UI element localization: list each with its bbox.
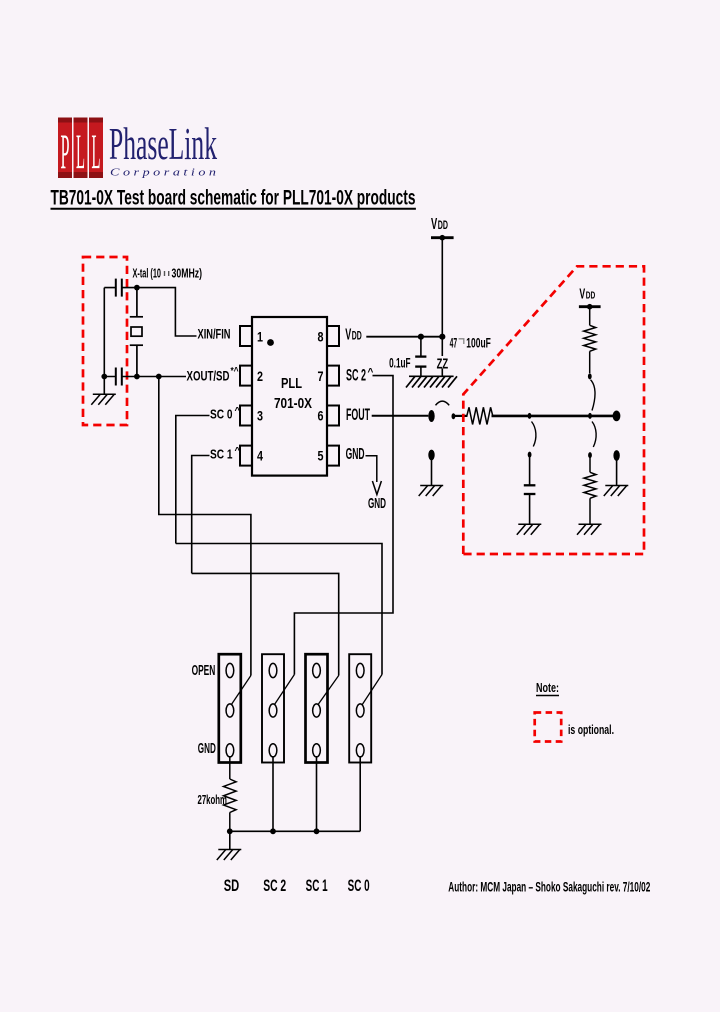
svg-text:GND: GND [368, 495, 386, 512]
node main line mid [528, 413, 532, 419]
svg-text:DD: DD [352, 331, 362, 343]
node XIN junction [134, 285, 140, 291]
wire SC1 jumper bottom [316, 756, 318, 831]
svg-text:100uF: 100uF [466, 334, 491, 350]
pin 4 box [240, 446, 252, 466]
node VDD junction [439, 334, 445, 340]
label SC 2 [346, 367, 374, 385]
optional dashed box (crystal) [83, 257, 127, 425]
label SC 0 [210, 406, 241, 422]
node bus SC2 [270, 828, 276, 834]
node shunt resistor top [588, 452, 592, 458]
ground crystal rail [91, 394, 116, 405]
jumper header SC0 [349, 654, 371, 762]
resistor series (in line) [467, 407, 493, 424]
svg-text:^: ^ [235, 406, 241, 417]
power VDD symbol top [431, 216, 454, 241]
svg-text:DD: DD [438, 220, 448, 232]
wire pin8 to VDD [366, 336, 442, 338]
wire VDD vertical [441, 238, 443, 337]
svg-text:V: V [579, 286, 585, 302]
pin 1 box [240, 326, 252, 346]
hop arc pull-up to line [591, 380, 596, 411]
power VDD symbol right [579, 286, 601, 309]
jumper header SD [219, 654, 241, 762]
capacitor electrolytic ZZ [437, 337, 449, 377]
wire switch diagonal SC0 [362, 675, 382, 705]
crystal Y1 [130, 289, 143, 377]
pin 2 box [240, 366, 252, 386]
svg-text:SC 0: SC 0 [210, 407, 233, 422]
svg-text:C o r p o r a t i o n: C o r p o r a t i o n [110, 167, 217, 179]
node bus SC1 [314, 828, 320, 834]
logo block L2 [89, 118, 103, 180]
wire pin5 GND arrow [366, 456, 382, 495]
svg-text:SC 2: SC 2 [346, 367, 366, 385]
svg-text:Note:: Note: [536, 681, 559, 695]
svg-text:is optional.: is optional. [568, 723, 614, 737]
svg-text:0.1uF: 0.1uF [389, 354, 411, 370]
wire SC0 left [176, 416, 210, 544]
svg-text:L: L [76, 123, 85, 179]
node after hop [452, 413, 456, 419]
svg-text:FOUT: FOUT [346, 406, 370, 424]
wire cap top leads [104, 287, 137, 289]
svg-text:30MHz): 30MHz) [172, 265, 203, 280]
note heading [536, 681, 559, 696]
pin 5 box [327, 446, 339, 466]
label XOUT/SD [187, 366, 239, 384]
svg-text:X-tal (10: X-tal (10 [133, 265, 162, 280]
svg-text:GND: GND [198, 741, 216, 757]
svg-text:47: 47 [450, 334, 458, 350]
title TB701-0X [51, 187, 416, 210]
wire switch diagonal SD [231, 676, 251, 705]
svg-text:XIN/FIN: XIN/FIN [198, 326, 231, 342]
jumper pins SD [226, 663, 234, 757]
ground shunt resistor [577, 524, 602, 535]
node main line right [588, 413, 592, 419]
jumper hop arc [436, 401, 450, 405]
svg-text:6: 6 [318, 408, 324, 424]
wire SC2 net run [294, 376, 393, 675]
svg-text:PhaseLink: PhaseLink [109, 118, 217, 169]
svg-text:PLL: PLL [281, 376, 302, 392]
ground jumper bus [217, 850, 242, 861]
label VDD pin8 [345, 327, 362, 344]
hop arc to shunt cap [532, 422, 536, 447]
svg-text:SC 1: SC 1 [306, 876, 328, 895]
svg-text:V: V [431, 216, 437, 233]
svg-text:P: P [61, 123, 70, 179]
svg-text:SC 2: SC 2 [263, 876, 286, 895]
svg-text:TB701-0X Test board schematic: TB701-0X Test board schematic for PLL701… [51, 187, 416, 210]
ground shunt cap [517, 524, 542, 535]
svg-text:GND: GND [346, 446, 365, 463]
svg-text:5: 5 [318, 448, 324, 464]
svg-text:4: 4 [257, 448, 263, 464]
ground power caps (wide hatched) [406, 376, 457, 387]
wire switch diagonal SC1 [318, 676, 339, 705]
resistor shunt [584, 458, 596, 525]
svg-text:3: 3 [257, 408, 263, 424]
wire bus to ground [229, 831, 231, 849]
pin 8 box [327, 326, 339, 346]
node SD tap [156, 374, 162, 380]
node rail junction [101, 374, 107, 380]
label 47~100uF [450, 334, 491, 350]
node bus left [227, 828, 233, 834]
terminal output post [613, 411, 621, 422]
wire SC0 net run [176, 544, 382, 675]
jumper header SC2 [262, 654, 284, 762]
resistor 27kohm [224, 756, 237, 831]
capacitor C-load bottom [116, 368, 122, 386]
note dashed sample box [535, 713, 562, 742]
capacitor C-load top [116, 279, 122, 297]
svg-text:DD: DD [586, 289, 596, 301]
wire SC1 net run [192, 573, 339, 675]
wire XIN net [137, 288, 197, 336]
node cap 0.1uF tap [418, 334, 424, 340]
logo block L1 [74, 118, 88, 180]
wire XOUT row [137, 376, 186, 378]
IC U1 body PLL701-0X [252, 317, 327, 476]
wire switch diagonal SC2 [275, 675, 295, 705]
pin 6 box [327, 406, 339, 426]
svg-text:8: 8 [318, 329, 324, 345]
ground right post [604, 486, 629, 497]
svg-text:L: L [92, 123, 101, 179]
svg-text:Author: MCM Japan – Shoko Saka: Author: MCM Japan – Shoko Sakaguchi rev.… [448, 879, 650, 894]
svg-text:XOUT/SD: XOUT/SD [187, 368, 230, 384]
svg-text:*^: *^ [231, 366, 239, 377]
node pull-up bottom [588, 373, 592, 379]
resistor pull-up [584, 307, 596, 374]
jumper header SC1 [306, 654, 328, 762]
terminal GND post below FOUT [428, 450, 434, 486]
logo block P [58, 118, 72, 180]
pin 3 box [240, 406, 252, 426]
wire SC0 jumper bottom [359, 756, 361, 831]
pin 1 marker dot [267, 339, 274, 346]
wire cap bottom leads [104, 376, 137, 378]
ground FOUT post [419, 486, 444, 497]
jumper pins SC0 [356, 663, 364, 757]
svg-text:OPEN: OPEN [192, 663, 216, 679]
wire SD net run [159, 377, 251, 676]
optional dashed region (output network) [463, 266, 644, 554]
terminal FOUT post [428, 410, 434, 422]
svg-text:^: ^ [235, 446, 241, 457]
capacitor 0.1uF [415, 337, 426, 377]
svg-text:701-0X: 701-0X [274, 396, 312, 412]
wire jumper ground bus [230, 830, 360, 832]
capacitor shunt [524, 457, 536, 524]
wire crystal left rail [103, 288, 105, 395]
jumper pins SC2 [269, 663, 277, 757]
wire FOUT to terminal [372, 415, 429, 417]
node shunt cap top [528, 452, 532, 458]
svg-text:27kohm: 27kohm [198, 793, 228, 807]
svg-text:V: V [345, 327, 351, 344]
jumper pins SC1 [313, 663, 321, 757]
svg-text:2: 2 [257, 368, 263, 384]
wire SC1 left [192, 456, 210, 574]
svg-text:SC 0: SC 0 [348, 876, 370, 895]
terminal gnd post right [613, 450, 619, 485]
wire FOUT main line [453, 415, 467, 417]
svg-text:7: 7 [318, 368, 324, 384]
pin 7 box [327, 366, 339, 386]
hop arc to shunt resistor [592, 422, 596, 448]
svg-text:SD: SD [224, 876, 240, 895]
svg-text:1: 1 [257, 329, 263, 345]
node XOUT junction [134, 374, 140, 380]
label SC 1 [210, 446, 241, 462]
wire SC2 jumper bottom [272, 756, 274, 831]
svg-text:SC 1: SC 1 [210, 447, 233, 462]
